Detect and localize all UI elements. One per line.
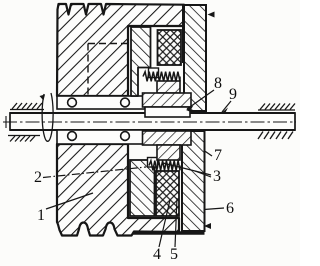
svg-text:8: 8 xyxy=(214,75,222,92)
svg-text:9: 9 xyxy=(229,86,237,103)
svg-text:6: 6 xyxy=(226,200,234,217)
svg-text:3: 3 xyxy=(213,168,221,185)
svg-text:2: 2 xyxy=(34,169,42,186)
svg-text:7: 7 xyxy=(214,147,222,164)
svg-text:1: 1 xyxy=(37,207,45,224)
svg-text:5: 5 xyxy=(170,246,178,263)
svg-text:4: 4 xyxy=(153,246,161,263)
